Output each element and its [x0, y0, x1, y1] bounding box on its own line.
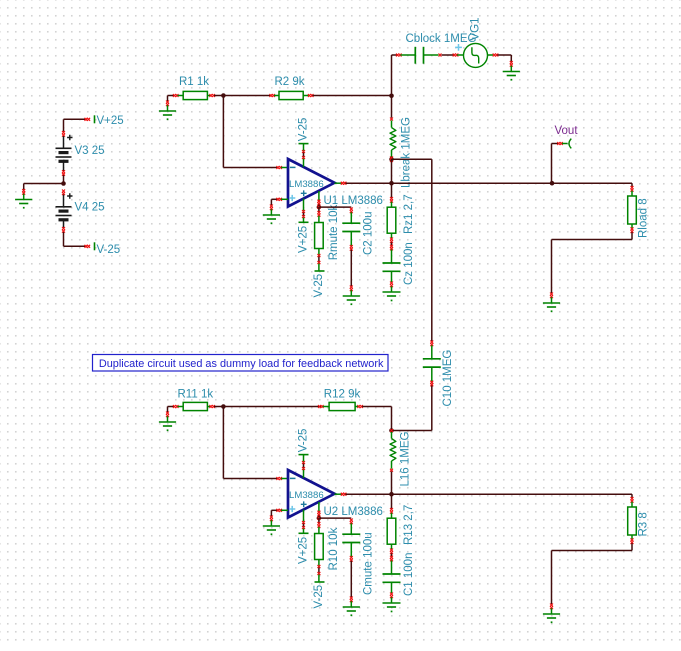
- svg-text:V+25: V+25: [298, 537, 310, 564]
- svg-text:V-25: V-25: [298, 118, 310, 142]
- svg-text:LM3886: LM3886: [289, 490, 324, 501]
- svg-text:R10 10k: R10 10k: [328, 527, 340, 570]
- svg-text:R1 1k: R1 1k: [179, 76, 209, 88]
- svg-text:R2 9k: R2 9k: [275, 76, 305, 88]
- svg-text:L16 1MEG: L16 1MEG: [400, 431, 412, 486]
- svg-text:V-25: V-25: [97, 244, 121, 256]
- svg-text:Vout: Vout: [555, 125, 579, 137]
- svg-text:Rload 8: Rload 8: [638, 198, 650, 238]
- svg-text:Lbreak 1MEG: Lbreak 1MEG: [401, 117, 413, 188]
- svg-text:Duplicate circuit used as dumm: Duplicate circuit used as dummy load for…: [99, 358, 384, 370]
- svg-text:Cz 100n: Cz 100n: [403, 242, 415, 285]
- svg-text:LM3886: LM3886: [289, 179, 324, 190]
- svg-text:V-25: V-25: [298, 429, 310, 453]
- svg-text:V4 25: V4 25: [75, 201, 105, 213]
- svg-text:Rmute 10k: Rmute 10k: [328, 204, 340, 260]
- svg-text:R13 2,7: R13 2,7: [403, 505, 415, 545]
- svg-text:VG1: VG1: [470, 17, 482, 40]
- svg-text:V+25: V+25: [298, 226, 310, 253]
- svg-text:V-25: V-25: [313, 274, 325, 298]
- svg-text:V-25: V-25: [313, 585, 325, 609]
- svg-text:R3 8: R3 8: [638, 512, 650, 536]
- svg-text:V3 25: V3 25: [75, 145, 105, 157]
- svg-text:Cblock 1MEG: Cblock 1MEG: [406, 33, 477, 45]
- svg-text:U2 LM3886: U2 LM3886: [324, 506, 383, 518]
- svg-text:Rz1 2,7: Rz1 2,7: [403, 194, 415, 234]
- svg-text:V+25: V+25: [97, 115, 124, 127]
- svg-text:C2 100u: C2 100u: [363, 212, 375, 255]
- svg-text:C10 1MEG: C10 1MEG: [442, 350, 454, 407]
- svg-text:Cmute 100u: Cmute 100u: [363, 532, 375, 595]
- svg-text:R12 9k: R12 9k: [324, 388, 361, 400]
- svg-text:R11 1k: R11 1k: [178, 388, 214, 400]
- svg-text:C1 100n: C1 100n: [403, 553, 415, 596]
